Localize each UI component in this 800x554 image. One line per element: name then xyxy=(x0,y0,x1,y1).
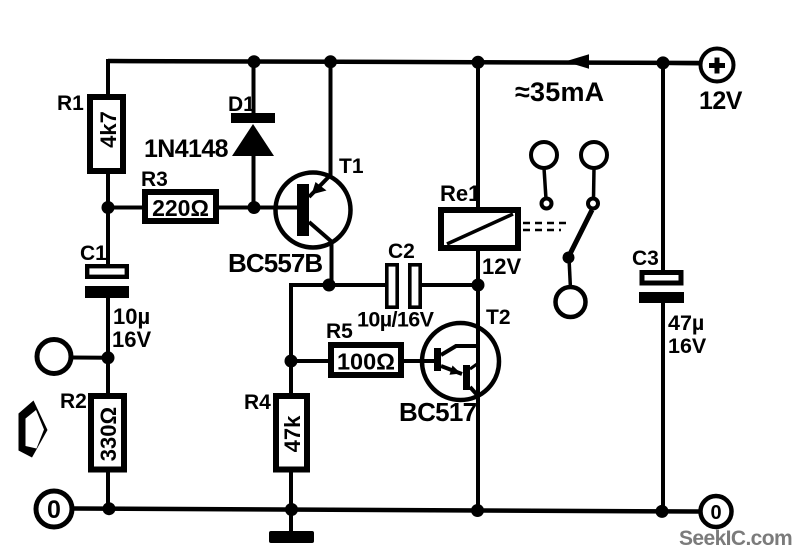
svg-text:R5: R5 xyxy=(326,320,353,343)
svg-text:R2: R2 xyxy=(60,390,87,413)
input arrow symbol xyxy=(19,401,48,458)
node base row D1 xyxy=(248,201,261,214)
node bottom bus T2 xyxy=(471,504,484,517)
resistor R1 xyxy=(57,92,123,171)
node input xyxy=(102,351,115,364)
svg-text:12V: 12V xyxy=(699,87,743,115)
wire D1 bottom xyxy=(252,154,256,208)
wire emitter row left xyxy=(291,285,387,362)
terminal 0 right xyxy=(701,496,732,527)
wire D1 top xyxy=(252,61,256,115)
node top bus C3 xyxy=(657,56,670,69)
resistor R4 xyxy=(244,391,307,470)
svg-text:0: 0 xyxy=(47,496,61,524)
relay Re1 xyxy=(440,181,521,279)
switch contact A xyxy=(531,142,557,209)
node emitter row T1 xyxy=(323,279,336,292)
svg-text:Re1: Re1 xyxy=(440,181,480,206)
svg-text:220Ω: 220Ω xyxy=(152,195,209,221)
wire R4 top xyxy=(289,361,293,397)
capacitor C1 xyxy=(80,242,151,352)
svg-text:≈35mA: ≈35mA xyxy=(515,77,604,107)
svg-text:10µ/16V: 10µ/16V xyxy=(357,308,435,332)
node bottom bus R4 xyxy=(285,503,298,516)
wire R5 left xyxy=(291,359,331,363)
svg-text:12V: 12V xyxy=(482,254,521,279)
wire T1 emitter bottom xyxy=(330,240,334,285)
wire left column R1 bottom to C1 xyxy=(106,170,110,266)
wire bottom ground bus xyxy=(74,509,699,512)
svg-text:SeekIC.com: SeekIC.com xyxy=(679,527,792,550)
svg-text:330Ω: 330Ω xyxy=(96,407,121,461)
node base row left xyxy=(102,201,115,214)
ground xyxy=(269,531,314,543)
wire R4 bottom to ground xyxy=(289,468,293,532)
svg-text:R1: R1 xyxy=(57,92,84,115)
svg-text:R4: R4 xyxy=(244,391,271,414)
transistor T2 BC517 xyxy=(399,251,511,511)
svg-text:1N4148: 1N4148 xyxy=(144,135,229,163)
svg-text:BC517: BC517 xyxy=(399,397,477,427)
current direction arrow xyxy=(565,54,589,69)
relay mechanical link dashed lines xyxy=(523,223,567,230)
node top bus T1 xyxy=(324,55,337,68)
node emitter row relay xyxy=(472,279,485,292)
switch common pole xyxy=(556,258,586,317)
wire T1 collector top xyxy=(329,61,333,176)
supply terminal +12V xyxy=(699,49,743,116)
svg-text:16V: 16V xyxy=(668,334,707,358)
svg-text:47k: 47k xyxy=(280,415,305,452)
node bottom bus C3 xyxy=(656,505,669,518)
svg-text:D1: D1 xyxy=(228,93,255,116)
wire C2 to relay node xyxy=(420,283,478,287)
node top bus relay xyxy=(472,56,485,69)
wire 12V supply xyxy=(663,61,701,66)
wire input terminal xyxy=(72,356,108,360)
wire relay coil top xyxy=(476,62,480,210)
svg-text:R3: R3 xyxy=(141,168,168,191)
svg-text:T1: T1 xyxy=(339,155,364,178)
node top bus D1 xyxy=(248,55,261,68)
terminal 0 left xyxy=(36,491,72,527)
wire C3 bottom xyxy=(661,301,665,512)
switch contact B xyxy=(581,142,607,209)
diode D1 xyxy=(144,93,275,163)
svg-text:100Ω: 100Ω xyxy=(337,349,395,375)
svg-text:C3: C3 xyxy=(632,247,659,270)
capacitor C2 xyxy=(357,240,435,332)
svg-text:0: 0 xyxy=(710,502,721,524)
wire left column C1 to R2 xyxy=(106,297,110,397)
svg-text:10µ: 10µ xyxy=(113,304,150,329)
svg-text:C1: C1 xyxy=(80,242,107,265)
wire C3 top xyxy=(661,62,665,272)
input terminal circle xyxy=(37,340,71,374)
svg-text:47µ: 47µ xyxy=(668,311,704,335)
node bottom bus left xyxy=(103,502,116,515)
svg-text:4k7: 4k7 xyxy=(96,111,121,148)
wire top supply bus xyxy=(108,61,700,63)
svg-text:16V: 16V xyxy=(112,327,151,352)
wire R5 to T2 base xyxy=(401,359,436,363)
svg-text:T2: T2 xyxy=(486,306,511,329)
wire left column R2 to bottom bus xyxy=(106,468,110,510)
capacitor C3 xyxy=(632,247,707,358)
svg-text:C2: C2 xyxy=(388,240,415,263)
resistor R2 xyxy=(60,390,124,470)
svg-text:BC557B: BC557B xyxy=(228,248,322,278)
transistor T1 BC557B xyxy=(228,155,364,278)
node R5 left xyxy=(285,355,298,368)
wire T1 base row xyxy=(108,206,298,210)
resistor R5 xyxy=(326,320,401,375)
switch lever xyxy=(563,210,593,264)
resistor R3 xyxy=(141,168,216,221)
wire left column R1 top xyxy=(106,59,110,98)
